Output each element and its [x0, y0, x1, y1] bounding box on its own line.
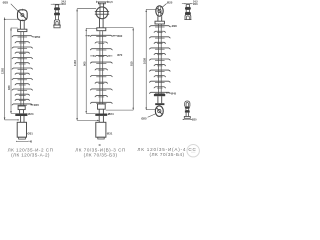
left insulator sheds [12, 36, 33, 106]
svg-text:Ø31: Ø31 [27, 132, 33, 136]
svg-text:Ø50: Ø50 [35, 35, 41, 39]
side view A labels [61, 1, 66, 7]
left insulator eye fitting [18, 9, 28, 22]
right top dim connector [146, 8, 156, 10]
left neck diameter label [25, 112, 34, 116]
svg-text:Ø25: Ø25 [141, 116, 147, 120]
svg-text:Ø31: Ø31 [107, 132, 113, 136]
left insulation length dimension line [7, 28, 18, 114]
svg-text:Ø70: Ø70 [117, 53, 123, 57]
right flange label [166, 91, 177, 95]
side view B fitting stack [184, 5, 191, 20]
middle insulation length dimension line (left) [82, 28, 96, 113]
side view A fitting stack [53, 5, 61, 28]
middle bottom width label [98, 144, 101, 147]
right big shed label [170, 24, 177, 28]
left insulator bottom neck [21, 116, 24, 122]
middle socket diameter label [106, 132, 113, 136]
svg-text:Ø45: Ø45 [171, 91, 177, 95]
svg-text:1058: 1058 [142, 58, 146, 64]
middle arc distance dimension line (right) [106, 28, 134, 111]
middle rod [100, 31, 103, 104]
svg-text:Ø90: Ø90 [117, 34, 123, 38]
right top eye label [162, 0, 173, 7]
right overall length dimension line [142, 9, 147, 110]
middle top width dim [96, 0, 113, 4]
middle sheds [90, 35, 112, 104]
svg-text:Ø16: Ø16 [193, 3, 198, 6]
side view A width dim [51, 4, 61, 5]
svg-text:Ø90: Ø90 [172, 24, 178, 28]
middle eye fitting [95, 7, 109, 19]
right eye cap bar [155, 103, 164, 105]
svg-text:Ø24: Ø24 [108, 112, 114, 116]
middle overall length dimension line [73, 9, 78, 121]
middle bottom flange [95, 114, 107, 116]
side view B width dim [182, 3, 193, 4]
svg-text:(ЛК 70/35-Б3): (ЛК 70/35-Б3) [84, 153, 118, 158]
middle upper bottom neck [99, 109, 103, 113]
left insulator top neck [20, 20, 24, 29]
right top neck [158, 16, 162, 21]
svg-text:905: 905 [82, 61, 86, 66]
left bottom width dim [16, 139, 33, 143]
svg-text:Ø20: Ø20 [192, 119, 197, 122]
middle top cap [97, 28, 106, 31]
right rod [158, 24, 161, 94]
left insulator bottom flange [15, 113, 27, 116]
svg-text:1103: 1103 [73, 60, 77, 66]
middle big shed dim [85, 34, 122, 38]
left bottom dim connector [5, 119, 20, 120]
watermark stamp circle [187, 145, 199, 157]
left insulator upper bottom neck [20, 110, 24, 114]
caption right insulator [137, 147, 196, 157]
left socket diameter label [27, 132, 34, 136]
left shed diameter label [33, 35, 41, 39]
svg-text:930: 930 [7, 85, 11, 90]
middle top neck [100, 19, 104, 28]
svg-text:Ø24: Ø24 [28, 112, 34, 116]
middle bottom dim connector [77, 120, 99, 121]
caption middle insulator [75, 147, 125, 157]
svg-text:24,5: 24,5 [108, 0, 114, 4]
right bottom eye [155, 106, 163, 117]
left insulator end-fitting body [18, 106, 25, 110]
right bottom eye label [141, 114, 156, 121]
middle top stem [98, 2, 105, 7]
side view C fitting stack [184, 106, 190, 118]
left insulator top cap [18, 29, 27, 31]
middle bottom neck2 [99, 116, 103, 122]
svg-text:Ø45: Ø45 [34, 103, 40, 107]
right sheds [149, 26, 170, 94]
svg-text:(ЛК 70/35-Б4): (ЛК 70/35-Б4) [149, 152, 184, 157]
middle neck diameter label [107, 112, 114, 116]
middle small shed dim [90, 53, 123, 57]
svg-text:40: 40 [29, 139, 32, 143]
right eye fitting [156, 6, 163, 16]
right bottom neck [158, 96, 162, 103]
svg-text:1292: 1292 [1, 68, 5, 74]
svg-text:(ЛК 120/35-А-2): (ЛК 120/35-А-2) [11, 153, 50, 158]
right top cap [155, 21, 164, 24]
left insulator rod [21, 32, 24, 106]
right bottom dim connector [146, 109, 155, 111]
svg-text:910: 910 [129, 61, 133, 66]
svg-text:Ø16: Ø16 [61, 3, 66, 6]
caption left insulator [8, 147, 54, 157]
side view B labels [193, 0, 198, 6]
svg-text:Ø25: Ø25 [167, 0, 173, 4]
side view C width dim [183, 119, 197, 122]
left insulator top eye label [3, 0, 19, 12]
middle end-fitting body [98, 104, 106, 109]
left flange diameter label [30, 103, 39, 107]
svg-text:Ø25: Ø25 [3, 0, 9, 4]
side view C ring [185, 101, 190, 106]
right bottom flange [154, 94, 165, 96]
left overall length dimension line [1, 17, 20, 120]
middle top dim connector [77, 8, 96, 10]
middle socket cylinder [96, 122, 106, 139]
left insulator socket cylinder [17, 122, 26, 139]
